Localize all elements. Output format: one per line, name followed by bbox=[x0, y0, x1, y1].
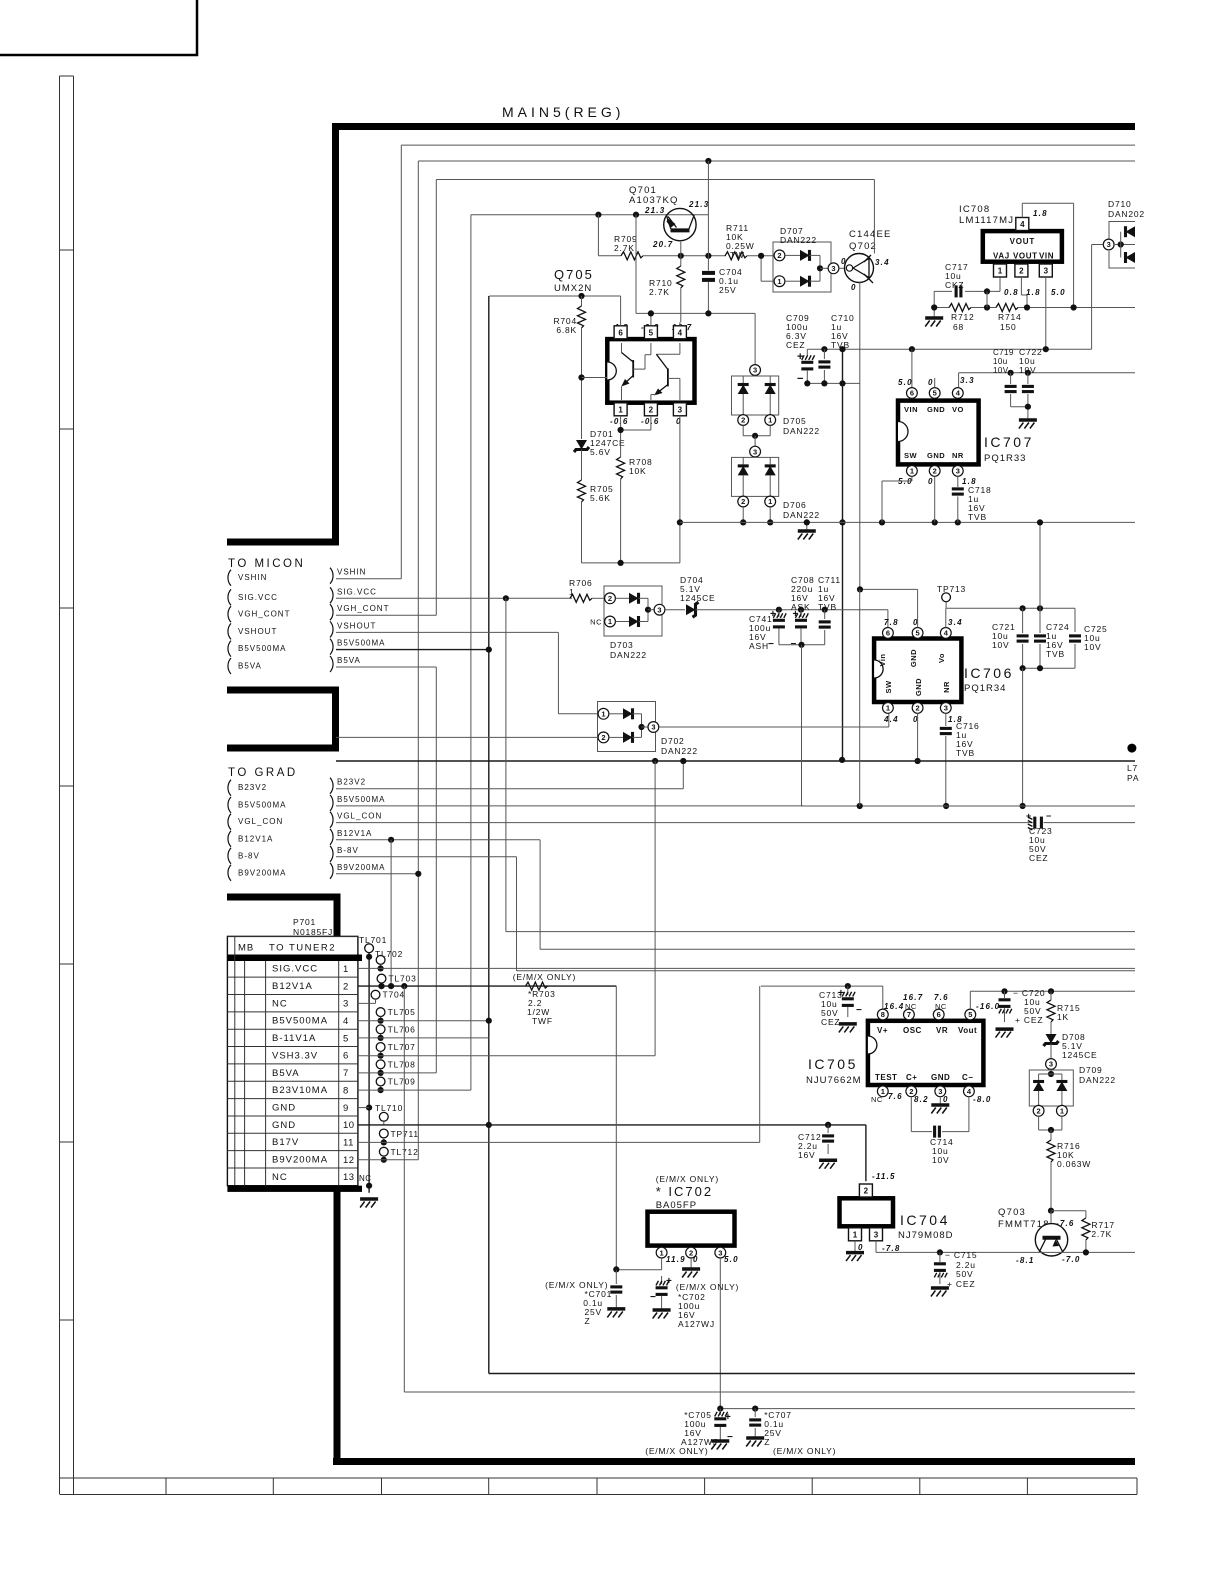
svg-text:-7.8: -7.8 bbox=[882, 1244, 901, 1253]
svg-text:0: 0 bbox=[928, 378, 934, 387]
svg-text:TO GRAD: TO GRAD bbox=[228, 767, 298, 779]
svg-text:2.7K: 2.7K bbox=[649, 287, 670, 297]
wire B5V500MA grad bbox=[336, 805, 804, 807]
svg-text:21.3: 21.3 bbox=[688, 200, 709, 209]
wire pin4 B5V500MA bbox=[358, 1020, 489, 1022]
wire Q702 collector up bbox=[873, 180, 875, 254]
node B9V200MA (grad) bbox=[228, 865, 231, 881]
wire B5V500MA micon bbox=[336, 649, 489, 651]
node B5V500MA (grad) bbox=[228, 797, 231, 813]
svg-text:B5V500MA: B5V500MA bbox=[238, 644, 286, 653]
wire D702 pin2 from left bbox=[336, 736, 598, 738]
svg-text:50V: 50V bbox=[956, 1269, 974, 1279]
svg-text:TVB: TVB bbox=[956, 748, 975, 758]
svg-text:-8.1: -8.1 bbox=[1016, 1256, 1035, 1265]
diode-pair D703 DAN222 bbox=[604, 586, 662, 636]
svg-text:OSC: OSC bbox=[903, 1026, 922, 1035]
wire D705 top rail y313 bbox=[636, 312, 755, 314]
svg-text:SW: SW bbox=[904, 451, 918, 460]
wire pin2 B12V1A bbox=[358, 985, 616, 987]
svg-text:VSHIN: VSHIN bbox=[238, 573, 267, 582]
diode-pair D705 DAN222 bbox=[754, 313, 756, 364]
capacitor C723 10u 50V CEZ bbox=[1033, 817, 1036, 829]
svg-text:D709: D709 bbox=[1079, 1065, 1103, 1075]
svg-text:DAN222: DAN222 bbox=[783, 426, 820, 436]
svg-text:PQ1R33: PQ1R33 bbox=[984, 453, 1026, 464]
svg-text:2: 2 bbox=[1037, 1107, 1041, 1116]
resistor R706 1 bbox=[570, 594, 592, 602]
svg-text:−: − bbox=[768, 639, 775, 650]
ground IC702 pin2 bbox=[690, 1258, 692, 1269]
capacitor C716 1u 16V TVB bbox=[945, 713, 947, 726]
svg-text:CEZ: CEZ bbox=[786, 340, 805, 350]
svg-text:IC704: IC704 bbox=[900, 1212, 950, 1228]
wire Q705 pin6 down bbox=[620, 296, 622, 326]
svg-text:7: 7 bbox=[907, 1010, 911, 1019]
resistor R715 1K bbox=[1050, 991, 1052, 1000]
svg-text:0: 0 bbox=[676, 417, 682, 426]
wire IC707 pin5 stub bbox=[934, 378, 936, 388]
svg-text:NC: NC bbox=[272, 998, 288, 1009]
svg-text:6.8K: 6.8K bbox=[556, 325, 577, 335]
wire rail y296 / B5V500MA bus x489 bbox=[489, 295, 620, 297]
svg-text:B23V10MA: B23V10MA bbox=[272, 1085, 328, 1096]
svg-text:TO MICON: TO MICON bbox=[228, 558, 305, 570]
svg-text:3: 3 bbox=[956, 467, 960, 476]
svg-text:11: 11 bbox=[343, 1137, 354, 1148]
svg-text:5: 5 bbox=[343, 1033, 349, 1044]
svg-text:5: 5 bbox=[916, 629, 920, 638]
ground C715 bbox=[931, 1286, 949, 1290]
svg-text:D702: D702 bbox=[661, 736, 685, 746]
node VGH_CONT (micon) bbox=[228, 606, 231, 622]
wire pin6 VSH3.3V bbox=[358, 1055, 655, 1057]
wire Q705 pin1 / R708 bbox=[620, 416, 622, 457]
wire Q703 base rail y1252 bbox=[876, 1251, 1135, 1253]
svg-text:VOUT: VOUT bbox=[1013, 252, 1038, 261]
svg-text:TL706: TL706 bbox=[388, 1024, 416, 1034]
wire IC702 pin1 in bbox=[661, 1258, 663, 1270]
svg-text:2: 2 bbox=[649, 405, 654, 414]
svg-text:10: 10 bbox=[343, 1120, 355, 1131]
ground C712 bbox=[819, 1158, 837, 1162]
connector row pin 2 B12V1A bbox=[227, 994, 358, 996]
resistor R711 10K 0.25W bbox=[725, 252, 747, 260]
svg-text:9: 9 bbox=[343, 1103, 349, 1114]
svg-text:B5V500MA: B5V500MA bbox=[238, 800, 286, 809]
svg-text:DAN202: DAN202 bbox=[1108, 209, 1145, 219]
svg-text:TEST: TEST bbox=[875, 1073, 897, 1082]
svg-text:3: 3 bbox=[938, 1087, 942, 1096]
svg-text:0: 0 bbox=[943, 1095, 949, 1104]
svg-text:B12V1A: B12V1A bbox=[272, 981, 313, 992]
wire D704 to IC706 pin6 bbox=[696, 609, 888, 611]
wire TP713 rail y608 bbox=[946, 607, 1075, 609]
wire rail y145 / vertical VSHIN bus x402 bbox=[401, 144, 1135, 146]
svg-text:LM1117MJ: LM1117MJ bbox=[959, 215, 1014, 226]
svg-text:0: 0 bbox=[693, 1255, 699, 1264]
svg-text:SIG.VCC: SIG.VCC bbox=[238, 593, 278, 602]
wire IC705 C+ C- / C714 bbox=[910, 1097, 912, 1132]
diode-pair D702 DAN222 bbox=[598, 702, 656, 752]
ground C717 bbox=[933, 291, 935, 318]
svg-text:TL710: TL710 bbox=[375, 1103, 403, 1113]
schematic thick border bbox=[336, 127, 1136, 543]
svg-text:8.2: 8.2 bbox=[914, 1095, 929, 1104]
wire D710 pin3 bbox=[1092, 244, 1104, 246]
connector row pin 5 B-11V1A bbox=[227, 1046, 358, 1048]
wire IC706 pin2 down bbox=[917, 713, 919, 761]
svg-text:1: 1 bbox=[601, 710, 605, 719]
svg-text:NC: NC bbox=[272, 1172, 288, 1183]
svg-text:T704: T704 bbox=[383, 990, 406, 1000]
wire D702 pin3 to IC706 pin1 bbox=[659, 726, 889, 728]
svg-text:5: 5 bbox=[933, 389, 937, 398]
svg-text:R712: R712 bbox=[951, 312, 975, 322]
svg-text:B5V500MA: B5V500MA bbox=[337, 639, 385, 648]
svg-text:1.8: 1.8 bbox=[1033, 209, 1048, 218]
wire pin10 GND rail right bbox=[489, 1124, 866, 1126]
svg-text:V+: V+ bbox=[877, 1026, 888, 1035]
svg-text:5: 5 bbox=[649, 328, 654, 337]
svg-text:3: 3 bbox=[753, 366, 757, 375]
svg-text:GND: GND bbox=[931, 1073, 950, 1082]
svg-text:IC707: IC707 bbox=[984, 434, 1034, 450]
wire SIG.VCC bbox=[336, 597, 572, 599]
svg-text:C−: C− bbox=[962, 1073, 973, 1082]
wire Q705 pin3 down bbox=[679, 416, 681, 563]
svg-text:TWF: TWF bbox=[532, 1016, 553, 1026]
svg-text:8: 8 bbox=[343, 1085, 349, 1096]
svg-text:C719: C719 bbox=[993, 348, 1014, 357]
wire rail y1373 B5V500MA bbox=[489, 1373, 1135, 1375]
svg-text:7: 7 bbox=[343, 1068, 349, 1079]
connector row pin 10 GND bbox=[227, 1132, 358, 1134]
svg-text:1245CE: 1245CE bbox=[1062, 1050, 1098, 1060]
connector row pin 12 B9V200MA bbox=[227, 1167, 358, 1169]
regulator IC702 BA05FP bbox=[648, 1212, 735, 1246]
wire B12V1A grad bbox=[336, 839, 540, 841]
wire B23V2 bbox=[336, 788, 683, 790]
svg-text:GND: GND bbox=[272, 1120, 296, 1131]
resistor R709 2.7K bbox=[621, 252, 643, 260]
svg-text:VSHOUT: VSHOUT bbox=[238, 627, 277, 636]
ground rail y522 bbox=[806, 522, 808, 531]
svg-text:VSHIN: VSHIN bbox=[337, 568, 366, 577]
svg-text:B23V2: B23V2 bbox=[238, 783, 267, 792]
wire pin9 GND bbox=[358, 1107, 369, 1109]
connector row pin 8 B23V10MA bbox=[227, 1098, 358, 1100]
svg-text:Q703: Q703 bbox=[998, 1207, 1026, 1218]
wire B12V1A pin2 bus bbox=[390, 840, 392, 986]
svg-text:3: 3 bbox=[657, 605, 661, 614]
svg-text:− C715: − C715 bbox=[945, 1250, 977, 1260]
node VSHOUT (micon) bbox=[228, 623, 231, 639]
svg-text:7.8: 7.8 bbox=[884, 618, 899, 627]
regulator IC704 NJ79M08D bbox=[840, 1198, 894, 1226]
svg-text:−: − bbox=[797, 373, 804, 385]
wire D707 pin1-2 tie bbox=[760, 256, 762, 281]
svg-text:2: 2 bbox=[916, 704, 920, 713]
svg-text:TL707: TL707 bbox=[388, 1042, 416, 1052]
svg-text:NR: NR bbox=[952, 451, 964, 460]
wire cap bottom rail bbox=[807, 382, 860, 384]
svg-text:MB: MB bbox=[238, 943, 254, 954]
svg-text:R714: R714 bbox=[998, 312, 1022, 322]
wire IC705 V+ rail bbox=[761, 985, 883, 987]
svg-text:10u: 10u bbox=[993, 357, 1008, 366]
connector row pin 9 GND bbox=[227, 1115, 358, 1117]
wire IC708 pin leads bbox=[999, 277, 1001, 291]
svg-text:5.0: 5.0 bbox=[898, 378, 913, 387]
svg-text:C144EE: C144EE bbox=[849, 229, 892, 240]
svg-text:+: + bbox=[793, 609, 800, 620]
svg-text:VIN: VIN bbox=[904, 405, 918, 414]
svg-text:1: 1 bbox=[998, 267, 1003, 276]
svg-text:PA: PA bbox=[1127, 773, 1139, 783]
regulator IC706 PQ1R34 bbox=[874, 639, 961, 703]
ground C722 bbox=[1019, 418, 1037, 422]
wire caps bottom y645 bbox=[779, 644, 825, 646]
svg-text:(E/M/X ONLY): (E/M/X ONLY) bbox=[773, 1446, 836, 1456]
wire VGL_CON / C723 rail bbox=[336, 822, 1031, 824]
svg-text:TVB: TVB bbox=[818, 602, 837, 612]
svg-text:1.8: 1.8 bbox=[1026, 288, 1041, 297]
svg-text:3: 3 bbox=[1044, 267, 1049, 276]
node VSHIN (micon) bbox=[228, 570, 231, 586]
svg-text:B5VA: B5VA bbox=[238, 662, 262, 671]
svg-text:4: 4 bbox=[678, 328, 683, 337]
svg-text:D703: D703 bbox=[610, 640, 634, 650]
svg-text:3.4: 3.4 bbox=[948, 618, 963, 627]
svg-text:* IC702: * IC702 bbox=[656, 1184, 713, 1199]
svg-text:GND: GND bbox=[927, 451, 945, 460]
wire D705-D706 link bbox=[742, 425, 744, 435]
svg-text:UMX2N: UMX2N bbox=[554, 283, 592, 294]
wire Q705 pin4 lead bbox=[679, 322, 681, 326]
svg-text:NJ79M08D: NJ79M08D bbox=[898, 1230, 954, 1241]
diode-pair D709 DAN222 bbox=[1046, 1059, 1057, 1070]
svg-text:-7.0: -7.0 bbox=[1062, 1255, 1081, 1264]
svg-text:L7: L7 bbox=[1127, 763, 1138, 773]
svg-text:B-11V1A: B-11V1A bbox=[272, 1033, 316, 1044]
svg-text:VO: VO bbox=[952, 405, 964, 414]
svg-text:NC: NC bbox=[871, 1095, 883, 1104]
svg-text:B23V2: B23V2 bbox=[337, 778, 366, 787]
svg-text:25V: 25V bbox=[719, 285, 737, 295]
connector row pin 11 B17V bbox=[227, 1150, 358, 1152]
capacitor C714 10u 10V bbox=[933, 1126, 936, 1138]
wire C719/C722 top rail y373 bbox=[959, 372, 1135, 374]
svg-text:1: 1 bbox=[910, 467, 914, 476]
node SIG.VCC (micon) bbox=[228, 589, 231, 605]
svg-text:B-8V: B-8V bbox=[238, 851, 260, 860]
svg-text:VIN: VIN bbox=[1039, 252, 1054, 261]
svg-text:TL709: TL709 bbox=[388, 1077, 416, 1087]
wire IC702 pin3 down bbox=[719, 1258, 721, 1409]
svg-text:N0185FJ: N0185FJ bbox=[293, 927, 333, 937]
testpoint TL710 bbox=[366, 1105, 372, 1111]
wire B5VA bbox=[336, 666, 436, 668]
svg-text:10K: 10K bbox=[629, 466, 647, 476]
svg-text:1: 1 bbox=[853, 1230, 858, 1239]
svg-text:0.8: 0.8 bbox=[1004, 288, 1019, 297]
wire SIG.VCC bus down bbox=[505, 598, 507, 931]
svg-text:5: 5 bbox=[968, 1010, 972, 1019]
connector row pin 3 NC bbox=[227, 1011, 358, 1013]
svg-text:(E/M/X ONLY): (E/M/X ONLY) bbox=[645, 1446, 708, 1456]
transistor Q701 A1037KQ bbox=[664, 208, 696, 240]
svg-text:NC: NC bbox=[935, 1002, 947, 1011]
svg-text:2: 2 bbox=[343, 981, 349, 992]
svg-text:1: 1 bbox=[777, 277, 781, 286]
svg-text:Vout: Vout bbox=[958, 1026, 977, 1035]
svg-text:GND: GND bbox=[927, 405, 945, 414]
svg-text:-8.0: -8.0 bbox=[973, 1095, 992, 1104]
svg-text:5.0: 5.0 bbox=[1051, 288, 1066, 297]
wire pin8 B23V10MA bbox=[358, 1089, 471, 1091]
svg-text:TL708: TL708 bbox=[388, 1059, 416, 1069]
svg-text:B9V200MA: B9V200MA bbox=[238, 868, 286, 877]
svg-text:TO TUNER2: TO TUNER2 bbox=[269, 943, 336, 954]
svg-text:0: 0 bbox=[928, 477, 934, 486]
node B5VA (micon) bbox=[228, 658, 231, 674]
wire R703 to IC702 bus bbox=[615, 986, 617, 1269]
svg-text:A1037KQ: A1037KQ bbox=[629, 195, 679, 206]
svg-text:IC705: IC705 bbox=[808, 1056, 858, 1072]
svg-text:2.7K: 2.7K bbox=[1091, 1229, 1112, 1239]
wire IC707 pin1 jog to gnd rail bbox=[911, 476, 913, 481]
wire IC706 pin5 gnd jog bbox=[917, 589, 919, 627]
wire rail y161 / B9V200MA bus x418 bbox=[418, 160, 1135, 162]
wire B-8V bbox=[336, 856, 517, 858]
svg-text:2: 2 bbox=[777, 251, 781, 260]
svg-text:VGL_CON: VGL_CON bbox=[337, 812, 382, 821]
svg-text:DAN222: DAN222 bbox=[661, 746, 698, 756]
svg-text:VAJ: VAJ bbox=[993, 252, 1010, 261]
svg-text:DAN222: DAN222 bbox=[610, 650, 647, 660]
svg-text:10V: 10V bbox=[932, 1155, 950, 1165]
svg-text:DAN222: DAN222 bbox=[1079, 1075, 1116, 1085]
wire B12V1A bottom bus bbox=[403, 986, 405, 1392]
svg-text:+ CEZ: + CEZ bbox=[947, 1279, 975, 1289]
node VGL_CON (grad) bbox=[228, 814, 231, 830]
ground IC705 pin3 bbox=[939, 1097, 941, 1105]
ground C713 bbox=[839, 1022, 857, 1026]
svg-text:4: 4 bbox=[343, 1016, 349, 1027]
wire pin5 B-11V1A bbox=[358, 1037, 489, 1039]
wire rail y179.5 / VGH_CONT bus x436 bbox=[436, 179, 874, 181]
svg-text:3.4: 3.4 bbox=[875, 258, 890, 267]
svg-text:CEZ: CEZ bbox=[821, 1017, 840, 1027]
svg-text:Z: Z bbox=[585, 1316, 591, 1326]
svg-text:16.4: 16.4 bbox=[884, 1002, 904, 1011]
svg-text:150: 150 bbox=[1000, 322, 1017, 332]
svg-text:MAIN5(REG): MAIN5(REG) bbox=[502, 104, 624, 120]
svg-text:3: 3 bbox=[831, 264, 835, 273]
svg-text:B5VA: B5VA bbox=[337, 656, 361, 665]
svg-text:2: 2 bbox=[1019, 267, 1024, 276]
svg-text:TL703: TL703 bbox=[389, 974, 417, 984]
svg-text:VSHOUT: VSHOUT bbox=[337, 621, 376, 630]
resistor R714 150 bbox=[996, 304, 1018, 312]
connector row pin 7 B5VA bbox=[227, 1080, 358, 1082]
svg-text:2: 2 bbox=[864, 1187, 869, 1196]
svg-text:D705: D705 bbox=[783, 416, 807, 426]
wire gnd rail y761 bbox=[336, 760, 1135, 762]
svg-text:0: 0 bbox=[858, 1243, 864, 1252]
svg-text:21.3: 21.3 bbox=[644, 206, 665, 215]
svg-text:(E/M/X ONLY): (E/M/X ONLY) bbox=[656, 1174, 719, 1184]
resistor R708 10K bbox=[617, 457, 625, 479]
svg-text:16.7: 16.7 bbox=[903, 993, 923, 1002]
svg-text:16V: 16V bbox=[798, 1150, 816, 1160]
wire C719 bottom link bbox=[1011, 406, 1028, 408]
svg-text:Q705: Q705 bbox=[554, 267, 594, 282]
node B12V1A (grad) bbox=[228, 831, 231, 847]
svg-text:8: 8 bbox=[881, 1010, 885, 1019]
svg-text:IC706: IC706 bbox=[964, 665, 1014, 681]
svg-text:10V: 10V bbox=[992, 640, 1010, 650]
svg-text:3: 3 bbox=[753, 447, 757, 456]
wire Q705 pin2 jog bbox=[650, 416, 652, 430]
svg-text:GND: GND bbox=[272, 1102, 296, 1113]
svg-text:A127WJ: A127WJ bbox=[678, 1319, 715, 1329]
svg-text:VGH_CONT: VGH_CONT bbox=[238, 610, 290, 619]
svg-text:B5V500MA: B5V500MA bbox=[272, 1016, 328, 1027]
svg-text:SIG.VCC: SIG.VCC bbox=[337, 587, 377, 596]
resistor R705 5.6K bbox=[578, 480, 586, 502]
svg-text:VGL_CON: VGL_CON bbox=[238, 817, 283, 826]
wire pin7 B5VA bbox=[358, 1072, 436, 1074]
resistor R703 2.2 1/2W bbox=[526, 982, 548, 990]
wire C721 tail to rail bbox=[1022, 668, 1024, 806]
svg-text:3: 3 bbox=[343, 999, 349, 1010]
svg-text:-0.6: -0.6 bbox=[641, 417, 660, 426]
svg-text:VSH3.3V: VSH3.3V bbox=[272, 1050, 318, 1061]
resistor R716 10K 0.063W bbox=[1050, 1130, 1052, 1140]
svg-text:6: 6 bbox=[910, 389, 914, 398]
wire IC707 pin2 down bbox=[934, 476, 936, 522]
wire test line x369 bbox=[368, 953, 370, 1193]
svg-text:2: 2 bbox=[608, 594, 612, 603]
ground C701 bbox=[607, 1307, 625, 1311]
connector row pin 4 B5V500MA bbox=[227, 1028, 358, 1030]
diode-pair D706 DAN222 bbox=[750, 446, 761, 457]
wire C72x bottom y668 bbox=[1023, 667, 1075, 669]
wire gnd rail y522 bbox=[680, 521, 1135, 523]
regulator IC707 PQ1R33 bbox=[898, 401, 979, 465]
svg-text:IC708: IC708 bbox=[959, 204, 990, 215]
svg-text:B-8V: B-8V bbox=[337, 846, 359, 855]
svg-text:-16.0: -16.0 bbox=[976, 1002, 1000, 1011]
svg-text:2: 2 bbox=[933, 467, 937, 476]
wire pin12 B9V200MA bbox=[358, 1159, 418, 1161]
svg-text:0: 0 bbox=[851, 283, 857, 292]
connector row pin 6 VSH3.3V bbox=[227, 1063, 358, 1065]
wire node rail y349 bbox=[807, 348, 1091, 350]
connector row pin 1 SIG.VCC bbox=[227, 976, 358, 978]
ground IC704 pin1 bbox=[854, 1241, 856, 1253]
svg-text:-0.6: -0.6 bbox=[610, 417, 629, 426]
svg-text:ASH: ASH bbox=[749, 641, 769, 651]
svg-text:NJU7662M: NJU7662M bbox=[806, 1075, 862, 1086]
svg-text:P701: P701 bbox=[293, 917, 316, 927]
svg-text:4.4: 4.4 bbox=[883, 715, 899, 724]
wire Q705 pin5 lead bbox=[650, 313, 652, 325]
svg-text:2: 2 bbox=[909, 1087, 913, 1096]
wire D709 bottom join bbox=[1038, 1116, 1040, 1130]
